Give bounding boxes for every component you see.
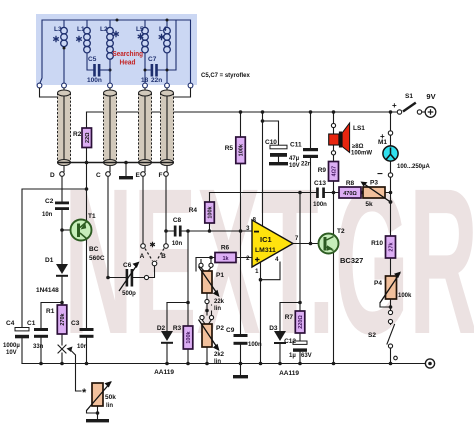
- svg-text:63V: 63V: [301, 353, 312, 359]
- svg-text:100mW: 100mW: [351, 151, 372, 157]
- svg-text:R3: R3: [173, 325, 182, 332]
- svg-text:P1: P1: [216, 272, 224, 279]
- svg-text:T1: T1: [88, 213, 96, 220]
- svg-text:100n: 100n: [313, 202, 327, 208]
- svg-text:22Ω: 22Ω: [85, 132, 91, 143]
- svg-text:R10: R10: [371, 240, 383, 247]
- svg-text:10V: 10V: [6, 350, 17, 356]
- svg-text:C4: C4: [6, 320, 15, 327]
- svg-text:E: E: [136, 172, 141, 179]
- svg-text:LM311: LM311: [255, 247, 276, 254]
- svg-text:27k: 27k: [389, 241, 395, 251]
- svg-text:22n: 22n: [151, 77, 162, 84]
- svg-text:500p: 500p: [122, 291, 136, 297]
- svg-text:C8: C8: [173, 217, 182, 224]
- svg-text:100n: 100n: [248, 342, 262, 348]
- svg-text:R1: R1: [46, 308, 55, 315]
- svg-text:9V: 9V: [426, 92, 435, 101]
- svg-text:50k: 50k: [105, 394, 116, 401]
- svg-text:C6: C6: [123, 262, 132, 269]
- svg-text:100k: 100k: [186, 330, 192, 343]
- svg-text:22n: 22n: [301, 162, 312, 168]
- svg-text:D3: D3: [269, 325, 278, 332]
- svg-text:BC: BC: [89, 246, 99, 253]
- svg-text:1N4148: 1N4148: [36, 287, 59, 294]
- svg-text:C7: C7: [148, 56, 157, 63]
- svg-text:100k: 100k: [208, 205, 214, 218]
- svg-text:*: *: [82, 387, 87, 399]
- svg-text:P4: P4: [374, 280, 382, 287]
- svg-text:R5: R5: [225, 145, 234, 152]
- svg-text:P3: P3: [370, 180, 378, 187]
- svg-text:2k2: 2k2: [214, 352, 225, 358]
- svg-text:R2: R2: [73, 131, 82, 138]
- svg-text:≥8Ω: ≥8Ω: [352, 144, 364, 150]
- svg-text:P2: P2: [216, 325, 224, 332]
- svg-text:22k: 22k: [214, 299, 225, 305]
- svg-text:C12: C12: [284, 338, 296, 345]
- svg-text:R4: R4: [189, 207, 198, 214]
- svg-text:AA119: AA119: [279, 370, 299, 377]
- svg-text:lin: lin: [214, 306, 221, 312]
- svg-text:BC327: BC327: [340, 256, 363, 265]
- svg-text:C: C: [96, 172, 101, 179]
- svg-text:C1: C1: [27, 320, 36, 327]
- svg-text:4Ω7: 4Ω7: [332, 166, 338, 177]
- svg-text:L4: L4: [159, 26, 167, 33]
- svg-text:S1: S1: [405, 93, 413, 100]
- svg-text:AA119: AA119: [154, 369, 174, 376]
- svg-text:10n: 10n: [77, 344, 88, 350]
- svg-text:100k: 100k: [239, 143, 245, 156]
- svg-text:C9: C9: [226, 327, 235, 334]
- svg-text:Head: Head: [120, 58, 136, 67]
- svg-text:D2: D2: [157, 325, 166, 332]
- svg-text:100n: 100n: [87, 77, 102, 84]
- svg-text:L1: L1: [77, 26, 85, 33]
- svg-text:1k: 1k: [222, 256, 229, 262]
- svg-text:S2: S2: [368, 332, 376, 339]
- svg-text:C3: C3: [71, 320, 80, 327]
- svg-text:R6: R6: [221, 245, 230, 252]
- svg-text:10n: 10n: [172, 241, 183, 247]
- svg-text:lin: lin: [106, 403, 113, 409]
- svg-text:47µ: 47µ: [289, 156, 300, 162]
- svg-text:−: −: [377, 169, 383, 180]
- svg-text:D1: D1: [45, 257, 54, 264]
- svg-text:220Ω: 220Ω: [298, 315, 304, 329]
- svg-text:L3: L3: [54, 26, 62, 33]
- svg-text:R7: R7: [285, 314, 294, 321]
- svg-text:D: D: [50, 172, 55, 179]
- svg-text:C5: C5: [88, 56, 97, 63]
- svg-text:1µ: 1µ: [289, 353, 296, 359]
- svg-text:C2: C2: [45, 198, 54, 205]
- svg-text:L5: L5: [136, 26, 144, 33]
- svg-text:M1: M1: [378, 139, 387, 146]
- svg-text:100k: 100k: [398, 293, 412, 299]
- svg-text:560C: 560C: [89, 255, 105, 262]
- svg-text:C13: C13: [314, 180, 326, 187]
- svg-text:lin: lin: [214, 359, 221, 365]
- svg-text:18: 18: [141, 77, 149, 84]
- svg-text:L2: L2: [100, 26, 108, 33]
- svg-text:C11: C11: [290, 142, 302, 149]
- svg-text:R9: R9: [318, 167, 327, 174]
- svg-text:B: B: [161, 253, 166, 260]
- svg-text:IC1: IC1: [260, 235, 272, 244]
- svg-text:10n: 10n: [42, 212, 53, 218]
- svg-text:C5,C7 = styroflex: C5,C7 = styroflex: [201, 73, 251, 79]
- svg-text:LS1: LS1: [353, 125, 365, 132]
- svg-text:+: +: [392, 101, 397, 110]
- svg-text:270k: 270k: [60, 312, 66, 325]
- svg-text:100...250µA: 100...250µA: [397, 164, 430, 170]
- svg-text:33n: 33n: [33, 344, 44, 350]
- svg-text:A: A: [140, 253, 145, 260]
- svg-text:F: F: [159, 172, 163, 179]
- svg-text:5k: 5k: [365, 201, 373, 208]
- svg-text:470Ω: 470Ω: [343, 191, 357, 197]
- svg-text:1000µ: 1000µ: [3, 343, 20, 349]
- svg-text:C10: C10: [265, 139, 277, 146]
- svg-text:T2: T2: [337, 228, 345, 235]
- svg-text:R8: R8: [346, 180, 355, 187]
- svg-text:10V: 10V: [289, 163, 300, 169]
